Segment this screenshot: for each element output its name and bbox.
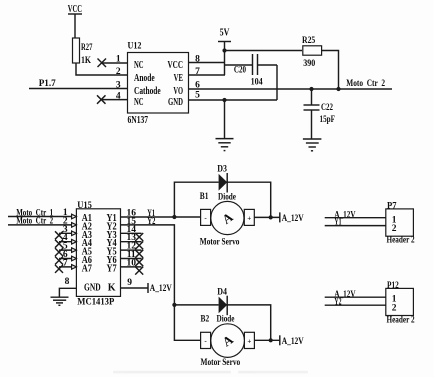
wire D4 cathode branch (227, 305, 271, 340)
svg-text:15pF: 15pF (320, 115, 336, 125)
node junction R25 to Moto Ctr 2 (336, 87, 340, 91)
svg-text:Header 2: Header 2 (387, 316, 415, 326)
no-connect X and wire U15 pin 13 (121, 233, 144, 249)
svg-text:R25: R25 (302, 36, 315, 46)
motor B1 Motor Servo (200, 192, 255, 247)
connector P7 Header 2 (386, 202, 415, 246)
svg-text:1: 1 (116, 55, 121, 65)
node junction 5V to R25 wire (222, 48, 302, 52)
node Moto Ctr 2 wire to U15 pin 2 (8, 216, 76, 226)
no-connect X and wire U15 pin 7 (55, 258, 76, 273)
wire D3 anode branch (172, 182, 218, 219)
svg-text:K: K (108, 282, 116, 293)
svg-text:Cathode: Cathode (134, 85, 161, 97)
svg-text:NC: NC (134, 59, 144, 71)
svg-text:Y7: Y7 (107, 263, 117, 274)
wire U12 pin 7 to 5V (189, 67, 226, 77)
svg-text:C20: C20 (234, 66, 246, 76)
wire U12 pin 4 (102, 91, 128, 101)
svg-text:390: 390 (303, 59, 315, 69)
svg-text:VE: VE (174, 72, 183, 84)
power VCC (68, 4, 82, 38)
no-connect X on U12 pin 1 (98, 59, 107, 68)
svg-text:8: 8 (195, 54, 200, 64)
svg-text:A_12V: A_12V (150, 283, 172, 293)
svg-text:A_12V: A_12V (282, 336, 304, 346)
svg-text:Diode: Diode (217, 315, 235, 325)
wire D4 anode branch (172, 303, 218, 307)
resistor R27 1K (73, 38, 93, 66)
svg-text:MC1413P: MC1413P (77, 298, 114, 308)
no-connect X and wire U15 pin 3 (55, 225, 76, 240)
svg-text:Motor Servo: Motor Servo (200, 237, 240, 247)
no-connect X and wire U15 pin 5 (55, 242, 76, 257)
wire U15 pin 9 K to A_12V port (121, 278, 173, 293)
no-connect X and wire U15 pin 10 (121, 258, 144, 274)
svg-text:VCC: VCC (168, 59, 184, 71)
wire U15 pin 8 GND (59, 277, 76, 297)
svg-text:U12: U12 (128, 42, 142, 52)
connector P12 Header 2 (386, 281, 415, 326)
svg-text:Header 2: Header 2 (387, 236, 415, 246)
wire D3 cathode branch (227, 182, 271, 217)
node junction C22 tap (309, 87, 313, 91)
svg-text:Moto Ctr 2: Moto Ctr 2 (346, 79, 385, 89)
wire U12 pin 1 (102, 55, 128, 65)
ground under U15 pin 8 (51, 297, 69, 305)
node junction pin5 ground (222, 98, 226, 102)
svg-text:GND: GND (168, 96, 183, 108)
svg-text:7: 7 (195, 67, 200, 77)
svg-text:U15: U15 (77, 201, 92, 211)
wire motor B1 to A_12V port (254, 212, 304, 223)
no-connect X and wire U15 pin 14 (121, 225, 144, 241)
optocoupler U12 6N137 body (128, 42, 189, 127)
svg-text:A7: A7 (82, 263, 92, 274)
svg-text:6: 6 (195, 80, 200, 90)
svg-text:3: 3 (116, 80, 121, 90)
svg-text:2: 2 (392, 303, 397, 313)
svg-text:VO: VO (173, 85, 183, 97)
capacitor C22 15pF (304, 89, 336, 139)
svg-text:R27: R27 (81, 43, 93, 53)
wire U12 pin 6 Moto Ctr 2 net (189, 79, 393, 90)
wire P12 pin 2 Y2 (325, 296, 386, 306)
scan ghost artifact (113, 371, 308, 374)
resistor R25 390 (302, 36, 339, 89)
svg-text:Motor Servo: Motor Servo (201, 358, 241, 368)
svg-text:7: 7 (63, 258, 68, 268)
svg-text:+: + (247, 337, 251, 345)
svg-text:2: 2 (116, 67, 121, 77)
svg-text:4: 4 (116, 91, 121, 101)
svg-text:D3: D3 (217, 164, 227, 174)
no-connect X on U12 pin 4 (97, 95, 106, 104)
svg-text:D4: D4 (217, 288, 227, 298)
capacitor C20 104 (225, 54, 278, 100)
wire U12 pin 5 to ground / C20 (189, 91, 278, 101)
svg-text:5: 5 (195, 91, 200, 101)
wire U12 pin 8 to 5V (189, 54, 225, 64)
wire U15 pin 15 Y2 down to motor B2 (121, 217, 202, 340)
svg-text:B1: B1 (200, 192, 209, 202)
svg-text:2: 2 (392, 224, 397, 234)
diode D3 (217, 164, 236, 202)
wire motor B2 to A_12V port (254, 335, 304, 346)
svg-text:P1.7: P1.7 (39, 79, 56, 89)
svg-text:1K: 1K (81, 56, 92, 66)
node Moto Ctr 1 wire to U15 pin 1 (8, 208, 76, 218)
ground under U12 (216, 100, 234, 151)
wire U15 pin 16 Y1 to motor B1 (121, 209, 201, 219)
power 5V (218, 28, 231, 76)
ground under C22 (303, 139, 322, 151)
svg-text:6N137: 6N137 (128, 115, 149, 126)
svg-text:GND: GND (84, 283, 101, 294)
darlington array U15 MC1413P body (72, 201, 121, 308)
no-connect X and wire U15 pin 6 (55, 250, 76, 265)
svg-text:+: + (247, 215, 251, 223)
svg-text:104: 104 (251, 78, 263, 88)
svg-text:8: 8 (65, 277, 70, 287)
wire P12 pin 1 A_12V (325, 289, 386, 299)
motor B2 Motor Servo (201, 315, 255, 368)
diode D4 (217, 288, 235, 325)
svg-text:9: 9 (127, 278, 132, 288)
svg-text:C22: C22 (321, 103, 333, 113)
no-connect X and wire U15 pin 4 (55, 233, 76, 248)
svg-text:Anode: Anode (134, 72, 155, 84)
no-connect X and wire U15 pin 12 (121, 242, 144, 258)
svg-text:5V: 5V (220, 28, 230, 39)
svg-text:B2: B2 (201, 315, 210, 325)
wire P7 pin 2 Y1 (325, 216, 386, 226)
svg-text:10: 10 (126, 258, 136, 268)
svg-text:Y2: Y2 (147, 217, 155, 227)
wire R27 to U12 pin 2 (76, 63, 128, 77)
node P1.7 wire to U12 pin 3 (29, 79, 128, 90)
wire P7 pin 1 A_12V (325, 209, 386, 219)
svg-text:Y1: Y1 (334, 216, 341, 226)
no-connect X and wire U15 pin 11 (121, 250, 144, 266)
svg-text:NC: NC (134, 96, 144, 108)
svg-text:A_12V: A_12V (282, 213, 304, 223)
